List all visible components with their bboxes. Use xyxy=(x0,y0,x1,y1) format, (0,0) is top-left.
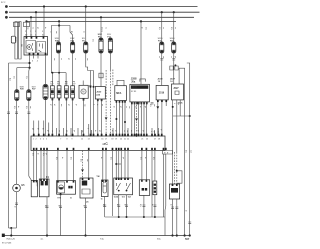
node dot x189.7 y116 xyxy=(189,115,191,117)
wire J17 pin2 xyxy=(176,199,178,236)
corner marker text top-left xyxy=(1,2,6,4)
svg-text:ge: ge xyxy=(101,104,103,106)
connector strip T10 xyxy=(43,85,48,100)
wire x26.5 L4 to relay box xyxy=(26,21,28,36)
svg-text:J527: J527 xyxy=(173,87,179,90)
svg-text:J530: J530 xyxy=(96,92,102,94)
wire label left of fuse S10 xyxy=(92,39,94,42)
fuse SB27 label xyxy=(32,87,37,91)
wire x125 down xyxy=(124,151,126,179)
svg-text:G: G xyxy=(101,198,103,200)
svg-text:ws: ws xyxy=(60,104,62,106)
right margin wire x189.7 xyxy=(187,63,190,236)
J285 designation label xyxy=(131,78,137,84)
relay stub pin a xyxy=(33,55,35,59)
node dot x93.5 xyxy=(93,86,95,88)
svg-text:gn: gn xyxy=(120,106,122,108)
connector box T2 top-left xyxy=(24,22,30,26)
fuse holder bracket (tall) xyxy=(15,22,21,59)
wire labels below rail xyxy=(32,152,169,162)
wire x112.5 down xyxy=(112,151,114,217)
node dot sub-bus 1 xyxy=(118,216,120,218)
svg-text:0,5: 0,5 xyxy=(152,157,154,160)
sub-bus y217 xyxy=(105,216,165,218)
wire box6 pin1 to sub-bus xyxy=(118,195,120,217)
wire box6 pin2 to sub-bus xyxy=(126,195,128,217)
connector box T1 top-left xyxy=(14,22,20,26)
relay stub pin b xyxy=(37,55,39,59)
svg-text:M: M xyxy=(82,90,84,94)
fuse S10 xyxy=(99,38,103,53)
box pin blocks xyxy=(33,178,178,186)
wire x102.5 down xyxy=(102,151,104,181)
diode Z2 label xyxy=(57,81,61,85)
J527 pin wire x176.8 dashed xyxy=(176,100,178,152)
wire x36 L2 to relay box xyxy=(35,12,37,36)
wire x141 L4 down to J285 xyxy=(140,21,142,84)
main ground bus xyxy=(3,235,191,237)
ground terminal left xyxy=(2,234,5,237)
control unit J530 box xyxy=(95,87,105,100)
wire colour labels below components xyxy=(13,103,179,109)
node dot distribution a xyxy=(28,62,30,64)
svg-text:0,5: 0,5 xyxy=(139,204,141,207)
speedometer box V xyxy=(31,180,37,196)
svg-text:18: 18 xyxy=(111,139,113,141)
wire T10 down to rail xyxy=(45,100,47,137)
wire x152 down to sub-bus xyxy=(151,151,153,218)
svg-text:gn: gn xyxy=(144,106,146,108)
svg-text:S7/: S7/ xyxy=(72,83,76,85)
relay pin wire to distribution xyxy=(29,55,31,68)
svg-text:0,5: 0,5 xyxy=(163,152,165,155)
svg-text:2,5: 2,5 xyxy=(25,76,27,79)
svg-text:0,5: 0,5 xyxy=(110,157,112,160)
svg-text:2,5: 2,5 xyxy=(13,76,15,79)
node dot MFA pin2 xyxy=(124,121,126,123)
fuse S131 xyxy=(160,42,164,53)
svg-text:5: 5 xyxy=(46,139,47,141)
wire x118.75 down xyxy=(118,151,120,179)
fuse S11 label xyxy=(107,34,112,38)
rail designation C xyxy=(102,142,108,146)
bracket A97 xyxy=(140,79,145,82)
node dot L4/x144.5 xyxy=(140,20,142,22)
svg-text:27: 27 xyxy=(154,139,156,141)
fuse S3 label xyxy=(55,38,60,42)
svg-text:0,5: 0,5 xyxy=(25,106,27,109)
wire J530 pin1 to rail xyxy=(97,99,99,136)
wire x101 L3 down to fuse S10 xyxy=(100,17,102,38)
arrowhead x136.5 xyxy=(135,118,138,121)
fuse SB28 label xyxy=(20,87,25,91)
wire J530 pin2 to rail xyxy=(101,99,103,136)
wire x16.8 to fuse SB28 xyxy=(16,68,18,90)
instrument cluster J285 box xyxy=(130,84,150,102)
fuel sender label above xyxy=(96,175,100,178)
dashed pin wire with arrow xyxy=(136,102,138,137)
svg-text:ge: ge xyxy=(99,130,101,132)
svg-text:ge: ge xyxy=(174,56,176,58)
diode Z2 xyxy=(57,86,61,98)
svg-text:ge: ge xyxy=(122,157,124,159)
switch box G32 pair xyxy=(114,178,133,195)
svg-text:19: 19 xyxy=(115,139,117,141)
svg-text:2: 2 xyxy=(36,139,37,141)
wire x59.1 down to rail xyxy=(58,98,60,136)
node dot L1/x85.75 xyxy=(85,5,87,7)
node dot x172.5 xyxy=(171,234,173,236)
connector tick S161 wire xyxy=(172,59,175,61)
node dot sub-bus 4 xyxy=(154,216,156,218)
bus line 30 (L1) xyxy=(9,6,198,8)
fuse SB17 label box xyxy=(11,36,16,43)
rail top pin blocks xyxy=(33,134,163,137)
footer text w xyxy=(41,239,45,241)
node dot x188 bus xyxy=(189,234,191,236)
svg-text:G: G xyxy=(70,198,72,200)
wire x106 down xyxy=(105,151,107,181)
svg-text:gn: gn xyxy=(73,130,75,132)
svg-text:ws: ws xyxy=(135,106,137,108)
wire box2 pin to main bus xyxy=(46,197,48,236)
bracket inner text xyxy=(20,44,22,47)
wire S131 fuse down to J519 xyxy=(161,53,163,85)
bridge jumper loop xyxy=(179,68,185,235)
fuse S131 label xyxy=(158,38,164,42)
svg-text:16: 16 xyxy=(101,139,103,141)
wire colour labels mid left xyxy=(9,58,88,81)
svg-text:MFA: MFA xyxy=(116,92,121,95)
node dot L2/x161.75 xyxy=(161,11,163,13)
svg-text:4: 4 xyxy=(43,139,44,141)
svg-text:0,5: 0,5 xyxy=(80,159,82,162)
wire x90.5 drop xyxy=(90,71,92,137)
fuel sender label xyxy=(101,198,103,200)
wire x31 L3 to relay box xyxy=(30,17,32,36)
short pin stubs into rail top xyxy=(34,102,162,136)
fuse S3 xyxy=(56,42,60,53)
wire x57.9 down xyxy=(57,151,59,181)
svg-text:0,5: 0,5 xyxy=(32,153,34,156)
svg-text:13: 13 xyxy=(88,139,90,141)
ground link horizontal xyxy=(9,227,17,229)
node dot fork xyxy=(58,24,60,26)
wire x88.75 down xyxy=(88,151,90,179)
bracket above MFA xyxy=(117,80,124,85)
J519 pin wire x166.2 xyxy=(165,102,167,106)
wire x128 down xyxy=(127,151,129,179)
control unit J519 box xyxy=(156,85,168,100)
J519 label above xyxy=(157,79,163,84)
wire resistor pin to sub-bus xyxy=(154,195,156,217)
svg-text:0,5: 0,5 xyxy=(42,153,44,156)
J519 pin blocks xyxy=(157,100,167,102)
wire J17 pin1 xyxy=(172,199,174,236)
node dot x90.5 xyxy=(90,86,92,88)
svg-text:K2 K3: K2 K3 xyxy=(131,91,136,93)
wire x173.75 L2 down to fuse S161 xyxy=(173,12,175,42)
wire x73.5 down xyxy=(73,151,75,181)
F1 label xyxy=(46,176,49,179)
node dot x85.5 xyxy=(84,234,86,236)
node dot L3/x31 xyxy=(30,16,32,18)
relay box J below rail xyxy=(80,178,93,198)
connector tick S131 wire xyxy=(160,59,163,61)
rail bottom pin blocks xyxy=(33,148,167,150)
wire x141.9 down to G32 xyxy=(141,151,143,180)
diode feed drops xyxy=(52,73,66,86)
J527 bottom label xyxy=(178,102,184,104)
wire colour labels top verticals xyxy=(26,27,146,32)
arrowhead x106.1 xyxy=(105,117,108,120)
relay pin wire x45.6 xyxy=(45,55,47,85)
node dot L3/x104.5 xyxy=(100,16,102,18)
wire x44 down xyxy=(43,151,45,180)
wire fuse S10 to J530 xyxy=(100,53,102,87)
svg-text:SB17: SB17 xyxy=(14,37,16,43)
relay J682 inner contact left xyxy=(26,41,36,54)
svg-text:gn: gn xyxy=(142,130,144,132)
wire x44 L1 to relay box xyxy=(43,7,45,37)
fuse S4 xyxy=(71,42,75,53)
wire x8.5 long left drop xyxy=(8,63,10,228)
wire x85.75 L1 down to fuse S5 xyxy=(85,7,87,43)
node dot L4/x59.5 xyxy=(58,20,60,22)
svg-text:J285: J285 xyxy=(132,86,138,89)
terminal bullet L2 xyxy=(5,11,8,14)
node dot x116.25 y164 xyxy=(115,163,117,165)
footer text mid2 xyxy=(157,239,161,241)
svg-text:2,5: 2,5 xyxy=(145,27,147,30)
wire fuse S11 down xyxy=(109,53,111,70)
wire x154.9 down to resistor xyxy=(154,151,156,182)
diode Z3 label xyxy=(65,81,69,85)
relay stub labels xyxy=(32,61,38,63)
sender G circle xyxy=(13,184,21,192)
svg-text:ge: ge xyxy=(177,103,179,105)
wire rail-end box pin2 xyxy=(164,154,167,217)
relay J682 inner detail xyxy=(32,43,34,51)
relay pin blocks bottom xyxy=(29,53,47,55)
pin labels above rail xyxy=(32,128,163,133)
MFA pin blocks xyxy=(116,101,126,103)
wire labels above fork fuses xyxy=(50,31,85,34)
bus line 31 (L4) xyxy=(26,20,176,22)
wire colour labels fuse wires right xyxy=(158,27,177,59)
bus line X (L3) xyxy=(9,16,194,18)
wire labels above bottom components xyxy=(14,150,192,212)
wire x70 drop to fuse S4 xyxy=(70,26,73,43)
wire x67 down xyxy=(66,151,68,181)
long wire x28.8 down xyxy=(29,101,32,181)
wire S161 fuse down to J527 xyxy=(173,53,175,84)
node dot x173.75 y65.4 xyxy=(174,64,176,66)
wire fuse S4 down xyxy=(72,53,74,86)
fuse SB27 xyxy=(27,90,31,101)
footer text left1 xyxy=(7,239,16,241)
fuse S5 xyxy=(84,42,88,53)
diode Z1 label xyxy=(50,81,54,85)
wire x161.75 L2 down to fuse S131 xyxy=(161,12,163,42)
svg-text:22: 22 xyxy=(127,139,129,141)
footer text left2 xyxy=(2,243,12,245)
svg-text:3: 3 xyxy=(40,139,41,141)
node dot y72.7 a xyxy=(51,72,53,74)
resistor chain component xyxy=(153,181,157,195)
svg-text:IN4.0-25: IN4.0-25 xyxy=(7,239,16,241)
fuse S161 xyxy=(172,42,176,53)
svg-text:0,5: 0,5 xyxy=(70,157,72,160)
fuse S5 label xyxy=(82,38,86,42)
relay J682 inner circle mark xyxy=(28,46,30,48)
svg-text:21: 21 xyxy=(124,139,126,141)
MFA pin wires down xyxy=(116,101,125,137)
dashed wire x174.4 xyxy=(173,152,175,184)
diode Z1 xyxy=(51,86,55,98)
sender G bottom wire xyxy=(16,192,18,228)
svg-text:J519: J519 xyxy=(159,92,165,95)
motor V box xyxy=(79,85,88,98)
fuse S4 label xyxy=(70,38,75,42)
node dot x11.25 bus xyxy=(10,234,12,236)
node dot x176.8 xyxy=(176,234,178,236)
svg-text:20a: 20a xyxy=(131,80,136,83)
wire x66.4 down to rail xyxy=(65,98,67,136)
node dot x176.8 y170.8 xyxy=(176,170,178,172)
svg-text:0,5: 0,5 xyxy=(55,157,57,160)
svg-text:8: 8 xyxy=(67,139,68,141)
dashed wire x106.1 with arrow xyxy=(105,70,107,137)
wire G32b pin to sub-bus xyxy=(143,195,145,217)
twin gauge box xyxy=(57,181,76,196)
sender G label xyxy=(21,184,25,187)
wire x116.25 down xyxy=(115,151,117,179)
wire x28.8 to fuse SB27 xyxy=(28,68,31,90)
wire x72.6 down to rail xyxy=(72,98,74,136)
wire rail-end box pin1 xyxy=(163,154,165,217)
svg-text:507: 507 xyxy=(185,237,190,241)
diode Z4 xyxy=(71,86,75,98)
dashed continuation x176.8 xyxy=(176,152,178,184)
relay pin blocks top xyxy=(26,37,45,39)
wire x51.3 drop xyxy=(50,26,52,73)
connector box on S10 wire xyxy=(99,73,103,78)
relay J17 box xyxy=(169,184,179,199)
cluster pin blocks xyxy=(131,102,148,104)
node dot sub-bus 2 xyxy=(126,216,128,218)
svg-text:0,5: 0,5 xyxy=(140,157,142,160)
J527 pin wire x172.7 xyxy=(172,100,174,184)
svg-text:4,0: 4,0 xyxy=(9,78,11,81)
footer page number xyxy=(185,237,190,241)
connector box rail end xyxy=(163,151,173,155)
sensor box G32b xyxy=(139,180,149,196)
wire x82.5 dashed down xyxy=(82,151,84,179)
wire x59.1 drop to fuse S3 xyxy=(58,26,60,43)
dashed wire x110.4 xyxy=(109,70,111,137)
twin gauge label xyxy=(57,198,72,200)
fuse S11 xyxy=(108,38,112,53)
svg-text:0,5: 0,5 xyxy=(149,104,151,107)
svg-text:26: 26 xyxy=(146,139,148,141)
node dot ground link xyxy=(10,227,12,229)
svg-text:ws: ws xyxy=(130,130,132,132)
relay pin labels above xyxy=(25,31,45,37)
node dot x172.7 xyxy=(172,106,174,108)
control unit J527 box xyxy=(172,84,184,100)
node dot distribution b xyxy=(28,67,30,69)
node dot x184 bus xyxy=(184,234,186,236)
svg-text:97-27143: 97-27143 xyxy=(2,243,12,245)
svg-text:ws: ws xyxy=(65,130,67,132)
switch box labels xyxy=(114,197,132,199)
component bottom pin blocks xyxy=(45,98,103,102)
J527 label above xyxy=(170,79,176,84)
svg-text:ge: ge xyxy=(45,153,47,155)
connector rail C box xyxy=(31,136,165,151)
ground drop x11.25 xyxy=(10,228,12,236)
svg-text:T4/: T4/ xyxy=(96,175,100,178)
display unit J285 (MFA) box xyxy=(115,86,127,101)
J527 pin horizontal to right margin xyxy=(173,115,190,117)
relay J682 inner mark xyxy=(38,44,42,53)
stub x116.25 to x121 y164 xyxy=(116,163,121,165)
resistor loop box right xyxy=(177,171,182,183)
relay J682 inner contact right xyxy=(37,42,46,54)
wire x121.25 down xyxy=(120,151,122,179)
svg-text:28: 28 xyxy=(158,139,160,141)
svg-text:0,5: 0,5 xyxy=(13,106,15,109)
svg-text:S9/: S9/ xyxy=(65,83,69,85)
svg-text:ge: ge xyxy=(32,128,34,130)
wire box4 pin down xyxy=(85,198,87,236)
svg-text:17: 17 xyxy=(105,139,107,141)
wire x146.4 down to G32 xyxy=(145,151,147,180)
wire fuse S3 down xyxy=(58,53,60,73)
svg-text:0,5: 0,5 xyxy=(185,150,187,153)
svg-text:1: 1 xyxy=(33,139,34,141)
node dot L4/x26.5 xyxy=(25,20,27,22)
motor V label xyxy=(89,85,92,87)
pin numbers inside rail xyxy=(33,139,160,141)
svg-text:7: 7 xyxy=(60,139,61,141)
node dot L2/x173.75 xyxy=(173,11,175,13)
svg-text:97-2: 97-2 xyxy=(1,2,6,4)
cluster pin wires down xyxy=(132,102,147,136)
node dot L2/x36 xyxy=(35,11,37,13)
svg-text:S6/: S6/ xyxy=(57,83,61,85)
wire x52.4 down to rail xyxy=(51,98,53,136)
svg-text:9: 9 xyxy=(72,139,73,141)
svg-text:ge: ge xyxy=(68,58,70,60)
sub-bus drop x165 xyxy=(164,217,166,236)
dashed wire x112.9 xyxy=(112,70,114,86)
connector box T2a xyxy=(170,66,173,70)
footer text mid xyxy=(100,239,105,241)
svg-text:25: 25 xyxy=(141,139,143,141)
J label xyxy=(86,202,89,204)
wire stub L4 fork xyxy=(58,21,60,25)
svg-text:4: 4 xyxy=(37,61,38,63)
J527 pin wire x180.2 xyxy=(179,100,181,116)
fuse S161 label xyxy=(170,38,176,42)
wire box5 pin to sub-bus xyxy=(104,197,106,218)
svg-text:⇒C: ⇒C xyxy=(102,142,108,146)
svg-text:ge: ge xyxy=(36,27,38,29)
arrowhead x157.8 xyxy=(156,106,159,109)
wire box3 pin down xyxy=(60,194,62,235)
